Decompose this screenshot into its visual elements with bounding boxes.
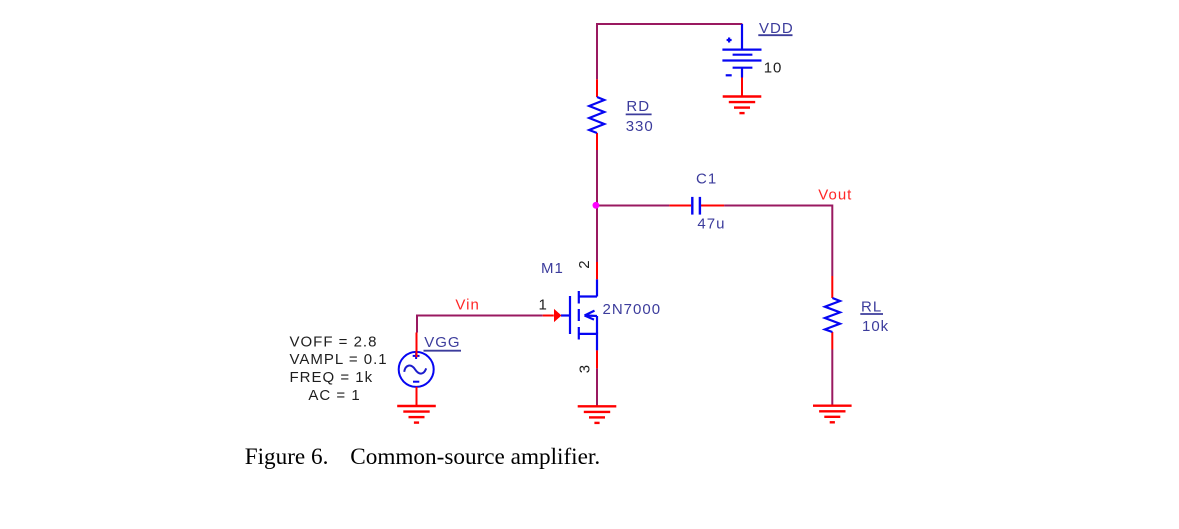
ground (VGG) [397, 406, 436, 423]
capacitor C1 pins [669, 205, 724, 207]
transistor M1 pins [543, 262, 597, 368]
ground (VDD) [723, 97, 762, 114]
drain connection [579, 295, 597, 297]
gate bar [569, 296, 571, 334]
svg-text:2: 2 [576, 259, 593, 268]
ground (RL) [813, 406, 852, 423]
svg-text:RL: RL [861, 299, 882, 316]
wire C1 to Vout corner [724, 205, 832, 207]
gate pin blue segment [561, 314, 570, 316]
battery VDD [722, 24, 761, 78]
battery V1 VDD pins [741, 24, 743, 97]
gate pin arrowhead [554, 309, 562, 322]
source VGG pins [416, 333, 418, 407]
channel dashes [578, 291, 580, 304]
wire M1 source to ground [596, 368, 598, 406]
resistor RD [589, 97, 604, 133]
wire VDD top horizontal [597, 23, 742, 25]
svg-text:10k: 10k [862, 318, 889, 335]
resistor RD pins [596, 79, 598, 150]
resistor RL pins [831, 276, 833, 350]
wire Vin horizontal [417, 315, 543, 317]
wire Vin corner down to VGG [416, 315, 418, 333]
wire Vout corner down to RL [831, 205, 833, 277]
bulk arrow [596, 316, 598, 334]
svg-text:Figure6.Common-source amplifie: Figure6.Common-source amplifier. [245, 444, 600, 470]
wire RL bottom to ground [831, 350, 833, 407]
svg-text:AC = 1: AC = 1 [308, 387, 360, 404]
sine wave [404, 366, 426, 374]
ground (M1 source) [578, 406, 617, 423]
svg-text:2N7000: 2N7000 [603, 301, 662, 318]
wire junction to C1 [597, 205, 669, 207]
svg-text:VOFF = 2.8: VOFF = 2.8 [290, 333, 378, 350]
transistor M1 2N7000 [561, 279, 597, 350]
resistor RL [825, 298, 840, 332]
svg-text:47u: 47u [697, 215, 725, 232]
source connection [579, 333, 597, 335]
svg-text:VAMPL = 0.1: VAMPL = 0.1 [290, 351, 388, 368]
svg-text:C1: C1 [696, 171, 717, 188]
svg-text:Vout: Vout [818, 187, 852, 204]
svg-text:M1: M1 [541, 260, 564, 277]
svg-text:RD: RD [626, 98, 650, 115]
svg-text:330: 330 [626, 118, 654, 135]
wire RD bottom to junction [596, 150, 598, 262]
svg-text:10: 10 [764, 59, 783, 76]
wire left vertical to RD [596, 23, 598, 79]
junction node [593, 202, 600, 209]
svg-text:FREQ = 1k: FREQ = 1k [290, 369, 374, 386]
capacitor C1 [692, 197, 700, 215]
svg-text:Vin: Vin [455, 297, 479, 314]
source VGG (VSIN) [399, 352, 434, 387]
svg-text:3: 3 [577, 364, 594, 373]
svg-text:1: 1 [539, 297, 548, 314]
svg-text:VGG: VGG [424, 334, 460, 351]
